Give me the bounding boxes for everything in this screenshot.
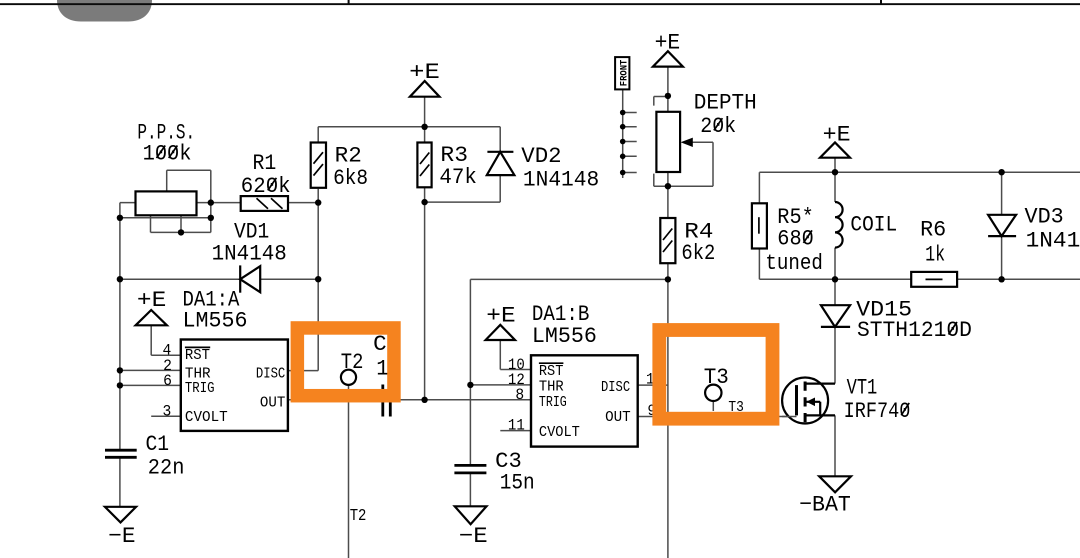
wire: TRIG-A to left rail — [120, 384, 181, 386]
ground -E (C1) — [105, 507, 136, 523]
svg-text:OUT: OUT — [605, 409, 631, 426]
wire: VD15 branch down to drain — [805, 279, 835, 383]
VT1 channel segments — [804, 382, 807, 423]
title block border line (top) — [0, 3, 1080, 5]
wire: C1 to ground — [119, 457, 121, 507]
capacitor C1 22n — [105, 450, 137, 457]
svg-text:8: 8 — [515, 386, 524, 404]
capacitor C2 — [383, 385, 391, 417]
wire: bottom bus (R5/coil/R6/VD3) — [759, 278, 1080, 280]
potentiometer DEPTH 20k body — [656, 112, 680, 172]
resistor R5* 680 tuned — [752, 203, 767, 248]
svg-text:R1: R1 — [253, 151, 277, 176]
highlight box around T3 test point — [659, 330, 772, 419]
svg-text:1N4148: 1N4148 — [212, 242, 287, 267]
svg-text:T3: T3 — [728, 399, 744, 416]
svg-text:RST: RST — [185, 347, 210, 364]
slashed zero of 680 — [803, 230, 812, 243]
wire: DEPTH pot side brackets — [654, 97, 713, 187]
svg-text:VD3: VD3 — [1025, 205, 1064, 230]
wire: OUT-A through C2 to TRIG-B — [288, 399, 531, 401]
FRONT panel label box — [615, 57, 629, 89]
node VD1/R2 column — [315, 276, 321, 282]
slashed zero of IRF740 — [901, 403, 909, 415]
DEPTH wiper arrow — [681, 138, 693, 147]
svg-text:DISC: DISC — [256, 365, 285, 382]
diode VD3 1N4148 — [988, 215, 1016, 236]
node OUT-A/R3/TRIG-B — [421, 397, 427, 403]
node R1/R2 — [315, 199, 321, 205]
power symbol +E (DA1:B) — [486, 325, 515, 340]
node FRONT pin 4 — [620, 154, 626, 160]
node pot right terminal — [208, 199, 214, 205]
capacitor C3 15n — [454, 465, 486, 473]
svg-text:6k2: 6k2 — [681, 241, 715, 266]
highlight box around T2 test point — [297, 328, 394, 396]
svg-text:OUT: OUT — [260, 395, 285, 412]
slashed zero of STTH1210D — [949, 322, 958, 335]
inductor COIL — [835, 202, 843, 248]
slashed zero of 620k — [268, 178, 277, 191]
resistor R6 1k — [911, 272, 957, 287]
node VD3 bottom — [998, 276, 1004, 282]
node +E right bus — [832, 169, 838, 175]
svg-text:+E: +E — [486, 304, 515, 329]
diode VD15 STTH1210D — [821, 305, 850, 327]
resistor R1 620k — [241, 196, 288, 211]
RST-A overline — [185, 346, 210, 348]
power symbol +E (right) — [820, 143, 850, 158]
test point T2 circle — [341, 370, 356, 385]
power symbol +E (main, over R3) — [410, 81, 440, 97]
svg-text:+E: +E — [137, 288, 166, 313]
svg-text:1k: 1k — [925, 243, 945, 268]
svg-text:VD2: VD2 — [521, 144, 561, 169]
wire: VD1 row (left rail to R2 column) — [120, 278, 318, 280]
svg-text:+E: +E — [823, 122, 851, 147]
svg-text:6k8: 6k8 — [333, 166, 368, 191]
svg-text:1N4148: 1N4148 — [523, 167, 599, 192]
svg-text:680: 680 — [777, 226, 814, 251]
resistor R3 47k — [417, 143, 431, 188]
node FRONT pin 5 — [620, 170, 626, 176]
ground -BAT — [819, 476, 851, 492]
svg-text:R2: R2 — [335, 144, 362, 169]
VT1 drain/source/body leads — [805, 384, 835, 416]
node DEPTH bottom — [665, 183, 671, 189]
svg-text:LM556: LM556 — [532, 324, 597, 349]
svg-text:15n: 15n — [500, 471, 535, 496]
node THR-A rail — [117, 367, 123, 373]
svg-text:R6: R6 — [920, 218, 946, 243]
wire: FRONT connector line with stubs — [623, 88, 637, 178]
svg-text:CVOLT: CVOLT — [539, 424, 580, 441]
svg-text:3: 3 — [163, 403, 172, 421]
node FRONT pin 2 — [620, 124, 626, 130]
svg-text:COIL: COIL — [850, 212, 897, 237]
wire: THR-A to left rail — [120, 369, 181, 371]
svg-text:100k: 100k — [143, 142, 192, 167]
wire: pot hidden lower tie — [120, 217, 211, 219]
node pot bottom stub — [178, 229, 184, 235]
svg-text:VT1: VT1 — [847, 375, 878, 400]
svg-text:6: 6 — [163, 372, 172, 390]
node FRONT pin 1 — [620, 110, 626, 116]
wire: pot right terminal to R1 — [197, 202, 241, 204]
node DEPTH top — [665, 93, 671, 99]
RST-B overline — [539, 362, 564, 364]
VT1 gate lead inside circle — [782, 416, 796, 418]
svg-text:−BAT: −BAT — [799, 492, 851, 517]
node R4 bottom — [665, 276, 671, 282]
wire: CVOLT-B stub (pin 11) — [500, 430, 531, 432]
resistor R2 6k8 — [311, 143, 326, 188]
svg-text:STTH1210D: STTH1210D — [857, 318, 972, 343]
wire: DISC-B (pin 13) to R4 column — [638, 384, 668, 386]
wire: THR-B / C3 column up and over to R4 bottom — [470, 279, 668, 465]
VT1 body-diode arrow — [806, 398, 815, 407]
op-amp/timer U-box DA1:A LM556 — [181, 340, 288, 431]
resistor R4 6k2 — [660, 218, 675, 263]
node TRIG-A rail — [117, 382, 123, 388]
wire: coil leads — [834, 172, 836, 279]
svg-text:−E: −E — [108, 524, 135, 549]
potentiometer P.P.S. 100k — [136, 191, 197, 215]
svg-text:11: 11 — [508, 417, 525, 435]
wire: T2 test-point line to bottom edge — [348, 385, 350, 558]
svg-text:+E: +E — [655, 31, 681, 56]
svg-text:RST: RST — [539, 363, 564, 380]
test point T3 circle — [705, 385, 721, 401]
svg-text:T2: T2 — [350, 506, 367, 525]
title block cell divider tick 1 — [348, 0, 350, 5]
node THR-B/C3 — [467, 382, 473, 388]
wire: R1-R2 node down to VD1 row and DISC-A — [288, 189, 318, 371]
wire: pot wiper top route to right terminal — [167, 170, 211, 218]
node +E/R3 top — [421, 124, 427, 130]
wire: +E to RST-B (pin 10) — [500, 340, 531, 370]
svg-text:1N4148: 1N4148 — [1026, 229, 1080, 254]
node pot lower tie right — [208, 215, 214, 221]
power symbol +E (DEPTH) — [653, 51, 683, 66]
ground -E (C3) — [455, 506, 487, 524]
svg-text:TRIG: TRIG — [185, 380, 215, 397]
wire: VD3 branch — [1001, 172, 1003, 279]
op-amp/timer U-box DA1:B LM556 — [531, 355, 638, 446]
svg-text:20k: 20k — [700, 114, 736, 139]
node VD1 left rail — [117, 276, 123, 282]
transistor VT1 IRF740 (MOSFET) — [782, 378, 828, 424]
svg-text:+E: +E — [409, 60, 440, 85]
wire: R5 branch — [758, 172, 760, 279]
wire: source to -BAT — [805, 415, 835, 476]
svg-text:IRF740: IRF740 — [844, 399, 911, 424]
node R3/VD2 bottom — [421, 199, 427, 205]
svg-text:C1: C1 — [146, 432, 170, 457]
slashed zeros of 100k — [157, 146, 178, 159]
wire: +E to RST-A (pin 4) — [151, 325, 181, 355]
node pot lower tie left — [117, 215, 123, 221]
svg-text:DISC: DISC — [601, 379, 630, 396]
svg-text:620k: 620k — [241, 174, 291, 199]
wire: DEPTH wiper return — [692, 142, 713, 186]
title block cell divider tick 2 — [880, 0, 882, 5]
svg-text:DEPTH: DEPTH — [694, 91, 757, 116]
wire: C3 to ground — [469, 473, 471, 506]
svg-text:FRONT: FRONT — [619, 60, 630, 87]
wire: T3 test-point stub — [712, 401, 714, 411]
wire: DEPTH/+E stem and R4 column to bottom edge — [667, 67, 669, 558]
diode VD2 1N4148 — [487, 151, 513, 153]
svg-text:47k: 47k — [439, 165, 477, 190]
diode VD1 1N4148 — [239, 265, 241, 292]
wire: left rail (pot left terminal down to C1) — [120, 203, 136, 451]
node FRONT pin 3 — [620, 139, 626, 145]
wire: R3/VD2 bottom node down to OUT-A/TRIG-B line — [425, 175, 501, 400]
wire: CVOLT-A stub (pin 3) — [151, 415, 181, 417]
power symbol +E (DA1:A) — [136, 310, 167, 325]
svg-text:−E: −E — [459, 524, 488, 549]
wire: +E bus over R2/R3/VD2 — [318, 97, 500, 152]
wire: OUT-B (pin 9) to gate — [638, 416, 797, 418]
svg-text:DA1:B: DA1:B — [532, 302, 590, 327]
slashed zero of 20k — [714, 118, 723, 130]
svg-text:tuned: tuned — [765, 251, 823, 276]
svg-text:22n: 22n — [148, 455, 185, 480]
node VD3 top — [998, 169, 1004, 175]
svg-text:LM556: LM556 — [183, 308, 248, 333]
node coil/VD15 — [832, 276, 838, 282]
VT1 gate bar — [795, 385, 798, 415]
grey tab (top-left sheet tab) — [57, 0, 152, 22]
wire: +E right bus — [759, 158, 1080, 173]
svg-text:TRIG: TRIG — [539, 394, 567, 411]
wire: pot bottom U link — [151, 215, 211, 232]
svg-text:CVOLT: CVOLT — [185, 409, 228, 426]
